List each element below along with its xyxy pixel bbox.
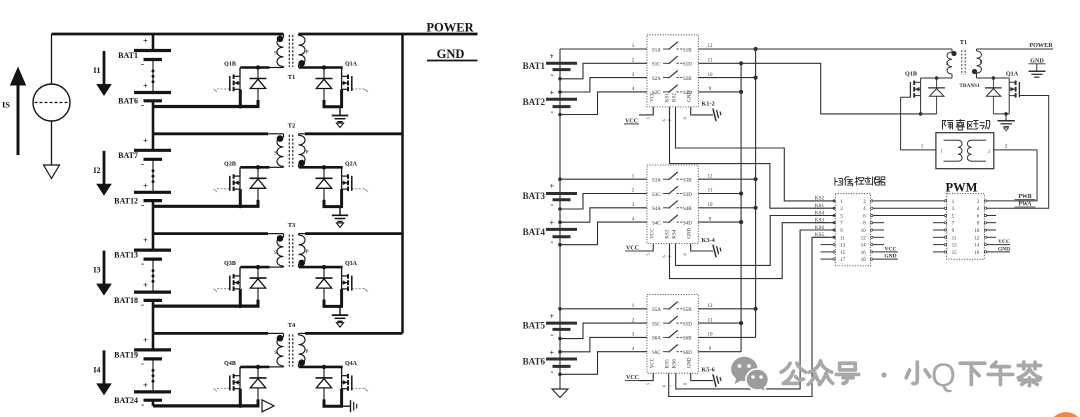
wire: Q3B source drop (thick) <box>239 289 242 306</box>
wire: GND net stub (left panel) <box>427 60 478 62</box>
svg-text:-: - <box>551 107 554 117</box>
svg-text:T2: T2 <box>288 122 296 129</box>
svg-text:TRANS1: TRANS1 <box>959 83 980 89</box>
wire: K5-6 outputs to buses <box>698 308 755 310</box>
svg-text:S1D: S1D <box>683 63 692 68</box>
svg-text:BAT1: BAT1 <box>523 61 546 71</box>
wire: BAT1/BAT2 chain stem <box>559 49 561 115</box>
svg-text:S3A: S3A <box>652 179 661 184</box>
svg-text:+: + <box>550 52 555 61</box>
stub: controller pin 17 <box>821 258 833 260</box>
svg-text:Q1B: Q1B <box>224 62 236 68</box>
svg-text:S4D: S4D <box>683 221 692 226</box>
svg-text:+: + <box>143 335 148 345</box>
svg-text:-: - <box>141 100 144 110</box>
svg-text:I3: I3 <box>93 266 100 275</box>
svg-text:GND: GND <box>437 47 465 61</box>
transformer T4 <box>277 337 284 366</box>
svg-text:S1B: S1B <box>683 48 692 53</box>
svg-text:-: - <box>141 159 144 169</box>
svg-text:17: 17 <box>840 258 845 263</box>
svg-text:GND: GND <box>688 91 693 102</box>
svg-text:P: P <box>306 149 309 155</box>
wire: battery chain inter-group segments <box>152 107 155 134</box>
label PWA + wire PWM pin4 to Q1A gate <box>987 96 1049 209</box>
svg-text:+: + <box>143 36 148 46</box>
svg-text:T1: T1 <box>288 74 296 81</box>
svg-text:BAT6: BAT6 <box>118 97 138 106</box>
svg-text:S: S <box>274 250 277 256</box>
svg-text:S4B: S4B <box>683 207 692 212</box>
svg-text:BAT12: BAT12 <box>114 196 138 205</box>
stubs: controller right pins 8,10,12,14 <box>873 222 884 224</box>
svg-text:KS3: KS3 <box>666 229 671 238</box>
svg-text:+: + <box>143 235 148 245</box>
svg-text:11: 11 <box>708 318 713 323</box>
wire: cell 3 secondary bottom to Q3A <box>299 266 301 268</box>
arrow I2 <box>103 151 106 185</box>
svg-text:Q2A: Q2A <box>345 161 358 167</box>
svg-text:S5A: S5A <box>652 308 661 313</box>
svg-text:PWM: PWM <box>946 181 978 195</box>
svg-text:BAT13: BAT13 <box>114 251 138 260</box>
svg-text:Q1B: Q1B <box>905 71 917 78</box>
wire: chain stem bottom segment <box>559 374 561 389</box>
svg-text:Q: Q <box>931 357 956 393</box>
node: Q1B source junction <box>919 112 923 116</box>
svg-text:BAT6: BAT6 <box>523 357 546 367</box>
polarity dot primary <box>277 36 284 43</box>
stub: controller pin 15 <box>821 251 833 253</box>
ground: cell 4 right small side ground <box>342 405 350 407</box>
svg-text:POWER: POWER <box>426 21 474 35</box>
ground: cell 1 right earth ground <box>339 107 341 116</box>
svg-text:+: + <box>143 81 148 91</box>
svg-text:I4: I4 <box>93 365 100 374</box>
svg-text:16: 16 <box>861 251 866 256</box>
svg-text:-: - <box>551 329 554 339</box>
wire: cell 1 top wire to transformer <box>268 33 284 35</box>
svg-text:BAT18: BAT18 <box>114 296 138 305</box>
wire+label: PWM VCC pin14 <box>987 244 1010 246</box>
wire: net KS2 route <box>676 107 836 201</box>
wire: Q1A source drop (thick) <box>340 89 343 107</box>
svg-text:5: 5 <box>646 117 651 119</box>
svg-text:Q2B: Q2B <box>224 161 236 167</box>
wire: net KS5 route <box>669 237 836 396</box>
svg-text:+: + <box>550 348 555 357</box>
svg-text:-: - <box>141 59 144 69</box>
wire: Q4A source drop (thick) <box>340 389 343 407</box>
polarity dot primary <box>277 235 284 242</box>
diode D3A <box>323 267 325 278</box>
svg-text:8: 8 <box>683 383 688 385</box>
svg-text:14: 14 <box>861 244 866 249</box>
svg-text:+: + <box>143 380 148 390</box>
wire: cell 1 secondary bottom to Q1A <box>299 67 301 69</box>
svg-text:14: 14 <box>975 244 980 249</box>
wire: bus A (vertical) <box>740 63 742 351</box>
svg-text:15: 15 <box>952 251 957 256</box>
svg-text:+: + <box>550 182 555 191</box>
relay block K3-4 <box>647 165 698 244</box>
wire: Q1B gate to driver pin1 <box>901 97 936 150</box>
wire: BAT3+ to relay pin1 <box>560 178 647 180</box>
svg-text:6: 6 <box>662 119 667 121</box>
ground: chassis ground at K3-4 <box>713 243 722 257</box>
svg-text:-: - <box>141 300 144 310</box>
svg-text:P: P <box>306 249 309 255</box>
wire: cell 3 primary bottom to Q3B <box>269 266 284 268</box>
svg-text:BAT5: BAT5 <box>523 321 546 331</box>
svg-text:KS2: KS2 <box>673 93 678 102</box>
svg-text:S1C: S1C <box>652 63 661 68</box>
svg-text:S6B: S6B <box>683 337 692 342</box>
wire: Q3A source to diode anode <box>323 305 344 308</box>
wire: BAT3- tap to relay pin2 <box>560 194 647 210</box>
svg-text:GND: GND <box>1030 57 1044 64</box>
svg-text:13: 13 <box>840 244 845 249</box>
svg-text:S2B: S2B <box>683 77 692 82</box>
battery group BAT1/BAT6 <box>152 34 155 51</box>
ground: cell 3 right earth ground <box>339 306 341 315</box>
svg-text:S4A: S4A <box>652 207 661 212</box>
svg-text:K3-4: K3-4 <box>702 237 716 244</box>
wire: K1-2 pin12 row to transformer T1 (top long wire) <box>698 48 952 50</box>
svg-text:BAT7: BAT7 <box>118 151 138 160</box>
svg-text:KS5: KS5 <box>666 359 671 368</box>
open arrow terminal at cell 4 bottom <box>262 400 274 412</box>
svg-text:Q3B: Q3B <box>224 261 236 267</box>
svg-text:PWB: PWB <box>1018 194 1031 200</box>
svg-text:P: P <box>306 50 309 56</box>
wire: GND pin of K1-2 to chassis <box>691 107 713 115</box>
svg-text:S4C: S4C <box>652 221 661 226</box>
node: drain junction dots cell 1 <box>256 65 260 69</box>
svg-text:16: 16 <box>975 251 980 256</box>
svg-text:-: - <box>141 200 144 210</box>
svg-text:I2: I2 <box>93 166 100 175</box>
svg-text:GND: GND <box>688 227 693 238</box>
wire: cell 4 secondary top to bus <box>305 332 403 335</box>
wire: Q4A source to diode anode <box>323 405 344 408</box>
wire: BAT1+ to relay pin1 <box>560 48 647 50</box>
svg-text:K1-2: K1-2 <box>702 100 715 107</box>
wire: BAT6- tap to relay pin4 <box>560 352 647 375</box>
wire: Q1A drain to T1 P-bottom <box>977 77 1010 79</box>
wire: K3-4 outputs to buses <box>698 178 755 180</box>
svg-text:BAT1: BAT1 <box>118 51 138 60</box>
svg-text:Q1A: Q1A <box>345 62 358 68</box>
svg-text:-: - <box>551 366 554 376</box>
node: drain junction dots cell 2 <box>256 165 260 169</box>
ground: cell 2 right earth ground <box>339 207 341 216</box>
wire: K1-2 pin10 to bus B <box>698 77 755 79</box>
wire: Q2B source drop (thick) <box>239 189 242 206</box>
arrow I1 <box>103 51 106 85</box>
wire: cell 2 secondary bottom to Q2A <box>299 166 301 168</box>
battery group BAT13/BAT18 <box>152 234 155 251</box>
stubs: PWM right pins 6,8,10,12 <box>987 215 996 217</box>
svg-text:-: - <box>551 70 554 80</box>
diode D1B <box>257 68 259 79</box>
watermark text: gong zhong hao . xiao Q xia wu cha <box>781 363 806 383</box>
svg-text:2: 2 <box>988 149 990 154</box>
svg-text:S3B: S3B <box>683 179 692 184</box>
svg-text:10: 10 <box>975 229 980 234</box>
svg-text:15: 15 <box>840 251 845 256</box>
svg-text:10: 10 <box>861 229 866 234</box>
svg-text:S2A: S2A <box>652 77 661 82</box>
svg-text:S1A: S1A <box>652 48 661 53</box>
wire: BAT4+ tap to relay pin3 <box>560 208 647 222</box>
svg-text:T3: T3 <box>288 222 296 229</box>
arrow I3 <box>103 251 106 285</box>
ground: battery chain ground (open triangle) <box>552 389 568 398</box>
wire: Q4B source drop (thick) <box>239 389 242 406</box>
svg-text:5: 5 <box>646 253 651 255</box>
svg-text:S: S <box>274 150 277 156</box>
svg-text:P: P <box>980 61 983 66</box>
wire: BAT6+ tap to relay pin3 <box>560 337 647 351</box>
wire: cell 1 primary bottom to Q1B <box>269 67 284 69</box>
node: bus junction dots <box>754 47 758 51</box>
wire: net KS4 route <box>676 216 836 266</box>
ground: chassis ground at K1-2 <box>713 107 722 121</box>
svg-text:GND: GND <box>884 254 896 260</box>
wire: BAT2- tap to relay pin4 <box>560 92 647 115</box>
svg-text:S5C: S5C <box>652 322 661 327</box>
wire: right vertical POWER bus (left panel) <box>401 34 404 333</box>
wire: BAT1- tap to relay pin2 <box>560 63 647 79</box>
wire: GND pin of K3-4 to chassis <box>691 244 713 251</box>
wire: cell 4 primary bottom to Q4B <box>269 366 284 368</box>
svg-text:6: 6 <box>662 255 667 257</box>
svg-text:13: 13 <box>952 244 957 249</box>
wire: cell 2 primary bottom to Q2B <box>269 166 284 168</box>
svg-text:18: 18 <box>861 258 866 263</box>
stub: PWM pin 15 <box>933 251 944 253</box>
stub: PWM pin 9 <box>933 229 944 231</box>
wire+label: PWM GND pin16 <box>987 251 1010 253</box>
svg-text:+: + <box>143 135 148 145</box>
svg-text:-: - <box>141 399 144 409</box>
svg-text:S3D: S3D <box>683 193 692 198</box>
wire: cell 2 battery return (thick bottom wire) <box>153 205 260 208</box>
svg-text:VCC: VCC <box>651 228 656 239</box>
svg-text:POWER: POWER <box>1029 42 1053 49</box>
svg-text:T4: T4 <box>288 322 296 329</box>
label: balance-controller Chinese text <box>835 178 843 185</box>
wire+label: VCC supply of K5-6 <box>639 373 653 380</box>
svg-text:VCC: VCC <box>885 246 897 252</box>
svg-text:PWA: PWA <box>1019 201 1033 207</box>
stub: PWM pin 13 <box>933 244 944 246</box>
wire: Q2A source to diode anode <box>323 205 344 208</box>
battery group BAT7/BAT12 <box>152 134 155 151</box>
wire: cell 2 top wire to transformer <box>153 132 268 135</box>
wire: BAT5/BAT6 chain stem <box>559 245 561 375</box>
svg-text:VCC: VCC <box>651 357 656 368</box>
svg-text:1: 1 <box>941 149 943 154</box>
svg-text:Q1A: Q1A <box>1006 71 1019 78</box>
svg-text:BAT2: BAT2 <box>523 97 546 107</box>
wire: cell 3 secondary top to bus <box>305 232 403 235</box>
wire: net KS3 route <box>670 223 836 279</box>
svg-text:Q4A: Q4A <box>345 361 358 367</box>
wire: Q1A source to diode anode <box>323 105 344 108</box>
wire: net KS6 route <box>676 230 836 389</box>
node: drain junction dots cell 4 <box>256 365 260 369</box>
svg-text:+: + <box>550 89 555 98</box>
svg-text:S3C: S3C <box>652 193 661 198</box>
wire: bus B (vertical) <box>755 49 757 337</box>
svg-text:11: 11 <box>840 236 845 241</box>
wire: Q1A source to diode anode <box>993 113 1009 115</box>
wire+label: VCC supply of K3-4 <box>639 244 653 251</box>
wire: K1-2 pin9 to bus A <box>698 91 741 93</box>
svg-text:S: S <box>946 62 949 67</box>
svg-text:12: 12 <box>861 236 866 241</box>
polarity dot secondary <box>298 260 305 267</box>
wire+label: controller VCC pin16 <box>873 251 898 253</box>
transformer T2 <box>277 137 284 166</box>
svg-text:BAT19: BAT19 <box>114 350 138 359</box>
svg-text:8: 8 <box>683 253 688 255</box>
wire: BAT5- tap to relay pin2 <box>560 323 647 339</box>
svg-text:S: S <box>274 350 277 356</box>
svg-text:12: 12 <box>975 236 980 241</box>
IC block: isolation driver (ge li qu dong) <box>936 133 994 169</box>
svg-text:-: - <box>141 358 144 368</box>
watermark WeChat icon <box>731 357 768 393</box>
arrow I4 <box>103 350 106 384</box>
svg-text:Q3A: Q3A <box>345 261 358 267</box>
wire: POWER top rail (left panel) <box>52 33 284 36</box>
svg-text:S: S <box>274 51 277 57</box>
svg-text:+: + <box>143 180 148 190</box>
svg-text:T1: T1 <box>960 39 967 46</box>
polarity dot primary <box>277 335 284 342</box>
transformer T3 <box>277 237 284 266</box>
transformer T1 <box>277 38 284 67</box>
polarity dot secondary <box>298 60 305 67</box>
wire: cell 1 battery return (thick bottom wire) <box>153 105 260 108</box>
svg-text:BAT4: BAT4 <box>523 227 546 237</box>
stub: PWM pin 11 <box>933 236 944 238</box>
svg-text:VCC: VCC <box>998 239 1010 245</box>
relay block K1-2 <box>647 35 698 107</box>
svg-text:11: 11 <box>952 236 957 241</box>
wire: Q1B drain to T1 S-bottom <box>921 77 952 79</box>
svg-text:S6A: S6A <box>652 337 661 342</box>
wire: Q1B source drop (thick) <box>239 89 242 106</box>
wire: BAT4- tap to relay pin4 <box>560 222 647 245</box>
IC block: balance controller (jun heng kong zhi qi) <box>835 194 870 266</box>
svg-text:GND: GND <box>688 357 693 368</box>
svg-text:KS1: KS1 <box>666 93 671 102</box>
battery group BAT19/BAT24 <box>152 333 155 350</box>
wire: BAT5+ to relay pin1 <box>560 308 647 310</box>
svg-text:KS4: KS4 <box>673 229 678 238</box>
wire: cell 2 secondary top to bus <box>305 132 403 135</box>
wire: Q3A source drop (thick) <box>340 289 343 307</box>
node: taps of BAT1/BAT2 <box>558 77 562 81</box>
wire: cell 4 top wire to transformer <box>153 332 268 335</box>
svg-text:S6D: S6D <box>683 351 692 356</box>
svg-text:KS6: KS6 <box>673 359 678 368</box>
svg-text:I1: I1 <box>93 66 100 75</box>
ground: chassis ground at K5-6 <box>713 373 722 387</box>
diode D4B <box>257 367 259 378</box>
diode at Q1A <box>992 78 994 88</box>
wire: BAT3/BAT4 chain stem <box>559 115 561 245</box>
svg-text:S6C: S6C <box>652 351 661 356</box>
wires: controller pins 2,4,6 to PWM pins 1,3,5 <box>873 200 944 202</box>
diode D1A <box>323 68 325 79</box>
svg-text:+: + <box>550 312 555 321</box>
wire: Q2A source drop (thick) <box>340 189 343 207</box>
svg-text:-: - <box>141 259 144 269</box>
svg-text:8: 8 <box>683 117 688 119</box>
node: taps of BAT3/BAT4 <box>558 207 562 211</box>
watermark orange circle corner <box>1049 412 1080 417</box>
wire: cell 3 battery return (thick bottom wire) <box>153 305 260 308</box>
svg-text:-: - <box>551 237 554 247</box>
svg-text:Q4B: Q4B <box>224 361 236 367</box>
relay block K5-6 <box>647 295 698 374</box>
label: isolation-driver Chinese text <box>943 121 954 129</box>
svg-text:S5B: S5B <box>683 308 692 313</box>
node: drain junction dots cell 3 <box>256 265 260 269</box>
svg-text:IS: IS <box>2 100 10 110</box>
wire: cell 3 top wire to transformer <box>153 232 268 235</box>
diode D2B <box>257 167 259 178</box>
ground: Q1A earth ground <box>1005 114 1007 120</box>
svg-text:+: + <box>143 280 148 290</box>
svg-text:BAT24: BAT24 <box>114 396 138 405</box>
wire+label: controller GND pin18 <box>873 258 898 260</box>
svg-text:GND: GND <box>998 246 1010 252</box>
diode D3B <box>257 267 259 278</box>
wire: net KS1 route <box>670 107 836 208</box>
label PWB + wire PWM pin2 to driver <box>987 150 1037 201</box>
svg-text:6: 6 <box>662 385 667 387</box>
polarity dot primary <box>277 135 284 142</box>
wire: T1 P-top to POWER label <box>977 48 1054 50</box>
diode D2A <box>323 167 325 178</box>
wire: cell 4 battery return (thick bottom wire) <box>153 404 260 407</box>
diode at Q1B <box>936 78 938 88</box>
current source IS <box>51 34 53 84</box>
wire: cell 4 secondary bottom to Q4A <box>299 366 301 368</box>
stub: PWM pin 7 <box>933 222 944 224</box>
svg-text:-: - <box>551 200 554 210</box>
diode D4A <box>323 367 325 378</box>
node: taps of BAT5/BAT6 <box>558 337 562 341</box>
svg-text:+: + <box>550 219 555 228</box>
svg-text:K5-6: K5-6 <box>702 367 715 374</box>
wire: BAT2+ tap to relay pin3 <box>560 78 647 92</box>
wire: K1-2 pin11 to Q1B source (steps down) <box>698 63 936 114</box>
arrow IS with label <box>17 83 20 155</box>
wire+label: VCC supply of K1-2 <box>639 107 653 115</box>
svg-text:P: P <box>306 349 309 355</box>
wire: GND pin of K5-6 to chassis <box>691 373 713 380</box>
svg-text:BAT3: BAT3 <box>523 191 546 201</box>
svg-text:VCC: VCC <box>651 91 656 102</box>
svg-text:S5D: S5D <box>683 322 692 327</box>
